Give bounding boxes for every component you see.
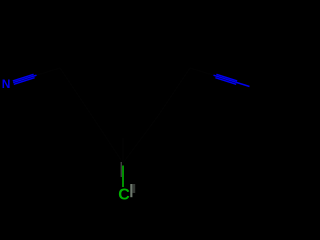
wire: central vertical bond [122,138,124,163]
triple bond C#N right (blue, central line extended to cropped edge) [214,74,250,86]
triple bond C#N left (blue half, three parallel lines) [13,74,37,84]
carbon skeleton (black bonds, invisible on black background) [37,68,214,163]
wire: right C-C single bond black half [190,68,214,75]
wire: C-Cl bond upper half (gray antialias remnant) [120,162,122,177]
chlorine Cl label: l glyph (desaturated) [130,184,132,197]
wire: right chain diagonal to central carbon [123,116,158,163]
svg-text:C: C [118,187,130,204]
wire: left C-C single bond black half [37,68,61,75]
wire: left chain diagonal to central carbon [92,116,123,163]
chemical skeletal structure on transparent(black-flattened) background [0,0,250,208]
wire: left chain descending diagonal [60,68,92,116]
svg-text:N: N [2,77,11,91]
C-Cl bond lower (green) half [122,166,124,188]
chlorine Cl label: l glyph antialias halo [132,184,135,193]
wire: right chain descending diagonal [158,68,190,116]
